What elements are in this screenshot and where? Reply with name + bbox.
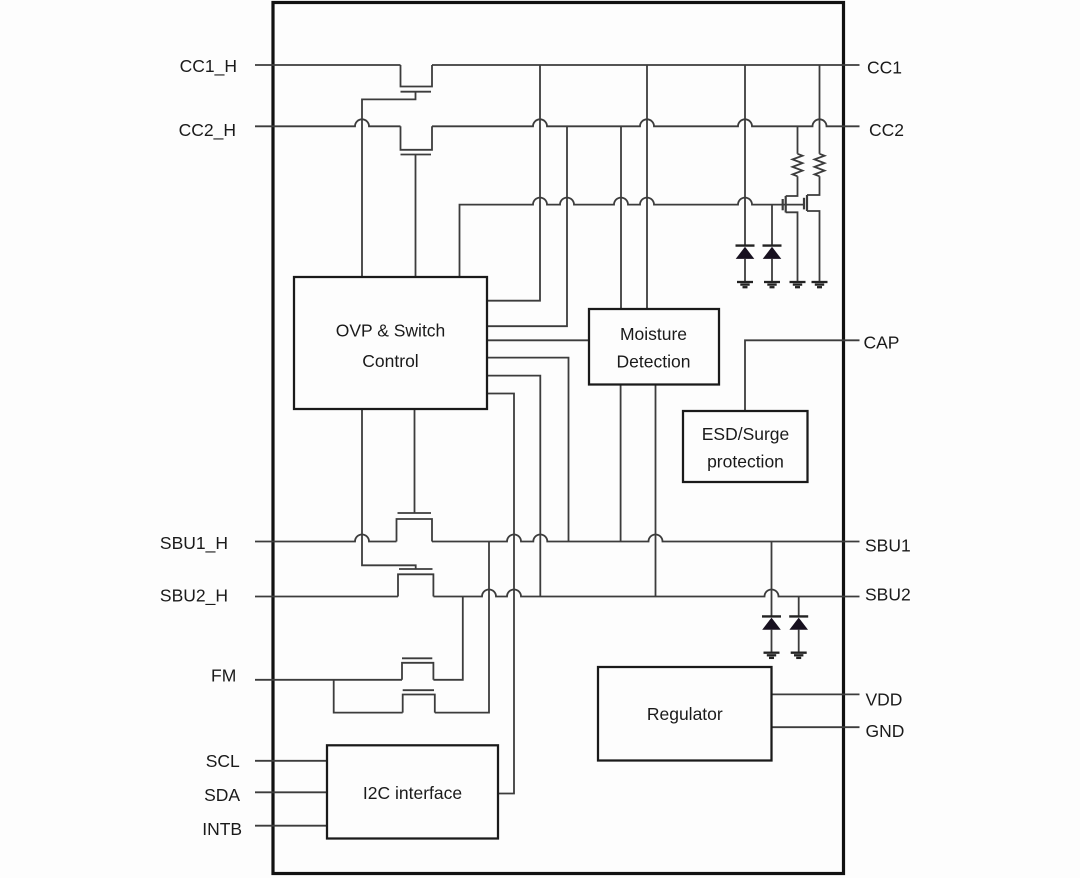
wire D3 to ground [771,630,773,653]
wire CAP pin to ESD block [745,340,860,411]
diode D3 [762,616,781,629]
transistor Q8 gate bar [403,689,434,691]
wire R2 to Q4 drain [807,176,820,195]
ground symbol (under D1) [737,282,753,287]
wire R1 to Q3 drain [786,176,798,196]
wire CC2_H pin stub with hop [255,119,401,126]
wire Q2 gate to OVP [415,155,417,278]
wire FM branch to Q8 [334,680,403,713]
wire GND pin stub [772,726,860,728]
block Moisture Detection [589,309,719,385]
wire Moisture Detection to SBU1 [620,385,622,542]
svg-text:Regulator: Regulator [647,704,723,724]
wire CC2 to resistor R1 [797,126,799,154]
wire Q1 gate to OVP [362,92,416,277]
transistor Q3 gate bar [782,199,784,210]
wire Q8 to SBU1 [435,542,489,713]
wire OVP to Q6 gate [362,409,416,569]
wire CC1 to diode D1 [744,65,746,246]
wire SBU1 to diode D3 [771,542,773,617]
wire CC2 line right with hops [432,119,860,126]
ground symbol (under Q4 source) [812,282,828,287]
wire SDA pin stub [255,791,327,793]
transistor Q1 (CC1 pass FET) channel [401,65,433,87]
wire D4 to ground [798,630,800,653]
wire OVP to Moisture Detection [487,339,589,341]
svg-text:I2C interface: I2C interface [363,783,462,803]
svg-text:ESD/Surge: ESD/Surge [702,424,790,444]
wire D2 to ground [771,259,773,282]
resistor R2 [815,154,825,177]
wire SCL pin stub [255,760,327,762]
wire CC1 line right [432,64,860,66]
ground symbol (under D4) [791,653,807,658]
svg-text:SBU1_H: SBU1_H [160,533,228,554]
block OVP & Switch Control [294,277,487,409]
svg-text:GND: GND [866,721,905,741]
svg-text:SCL: SCL [206,751,240,771]
transistor Q6 gate bar [399,568,433,570]
wire gate line OVP to Q3/Q4 gates with hops [460,198,805,277]
wire FM pin stub [255,679,402,681]
svg-text:Control: Control [362,351,418,371]
wire CC1 to OVP [487,65,540,301]
diode D4 [789,616,808,629]
svg-text:INTB: INTB [202,819,242,839]
wire OVP to Q5 gate [414,409,416,513]
transistor Q8 (FM FET) channel [403,695,435,713]
ground symbol (under D2) [764,282,780,287]
transistor Q6 (SBU2 pass FET) channel [398,574,433,596]
ground symbol (under Q3 source) [790,282,806,287]
chip outline frame [273,3,844,874]
wire OVP to SBU2 [487,376,540,597]
svg-text:SBU2_H: SBU2_H [160,586,228,607]
wire Q7 to SBU2 [433,597,462,680]
block Regulator [598,667,772,761]
transistor Q2 gate bar [401,154,432,156]
wire SBU2 line right with hops [433,590,859,597]
wire INTB pin stub [255,825,327,827]
wire SBU1 line right with hops [432,535,860,542]
block I2C interface [327,745,498,838]
wire VDD pin stub [772,693,860,695]
wire CC2 to Moisture Detection [620,126,622,309]
block ESD/Surge protection [683,411,808,482]
svg-text:SBU2: SBU2 [865,585,911,605]
wire Moisture Detection to SBU2 [655,385,657,597]
svg-text:CAP: CAP [864,333,900,353]
transistor Q1 gate bar [401,91,432,93]
wire D1 to ground [744,259,746,282]
transistor Q2 (CC2 pass FET) channel [401,126,433,150]
svg-text:CC1: CC1 [867,57,902,77]
transistor Q4 channel bar [806,195,808,211]
wire CC1_H pin stub [255,64,401,66]
wire SBU2 to diode D4 [798,597,800,617]
svg-text:VDD: VDD [866,690,903,710]
transistor Q3 channel bar [785,196,787,213]
transistor Q5 (SBU1 pass FET) channel [397,519,433,542]
wire CC1 to Moisture Detection [646,65,648,309]
svg-text:OVP & Switch: OVP & Switch [336,321,446,341]
svg-text:FM: FM [211,666,236,686]
svg-text:SBU1: SBU1 [865,536,911,556]
svg-text:Moisture: Moisture [620,324,687,344]
transistor Q5 gate bar [398,512,432,514]
wire CC1 to resistor R2 [819,65,821,154]
wire Q4 source to ground [807,211,820,282]
wire SBU2_H pin stub [255,596,398,598]
wire CC2 to OVP [487,126,567,326]
wire Q3 source to ground [786,212,798,282]
svg-text:CC1_H: CC1_H [180,56,237,77]
resistor R1 [793,154,803,177]
transistor Q4 gate bar [803,198,805,210]
wire OVP to SBU1 [487,358,569,542]
wire gate line to diode D2 [771,205,773,246]
svg-text:CC2: CC2 [869,120,904,140]
diode D2 [763,246,782,259]
svg-text:protection: protection [707,452,784,472]
svg-text:SDA: SDA [204,785,240,805]
ground symbol (under D3) [764,653,780,658]
wire OVP to I2C interface [487,394,514,794]
svg-text:CC2_H: CC2_H [179,120,236,141]
transistor Q7 (FM FET) channel [402,663,433,680]
svg-text:Detection: Detection [617,352,691,372]
transistor Q7 gate bar [402,657,432,659]
wire SBU1_H pin stub with hop [255,535,397,542]
diode D1 [736,246,755,259]
